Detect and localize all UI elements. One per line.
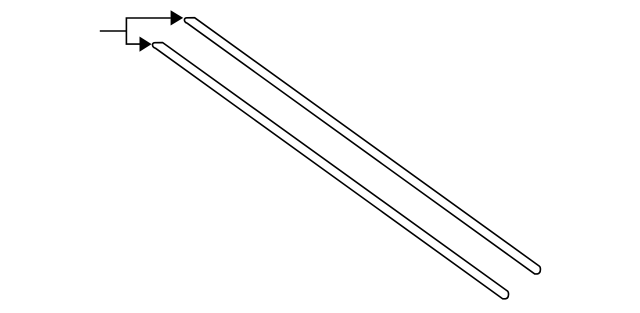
upper line (plate 1) xyxy=(184,18,540,274)
arrowhead to lower line xyxy=(140,37,152,52)
input wire xyxy=(100,30,127,32)
lower line (plate 2) xyxy=(153,43,509,299)
arrowhead to upper line xyxy=(171,10,184,25)
wire: trunk with top branch, vertical, bottom branch xyxy=(126,18,170,44)
